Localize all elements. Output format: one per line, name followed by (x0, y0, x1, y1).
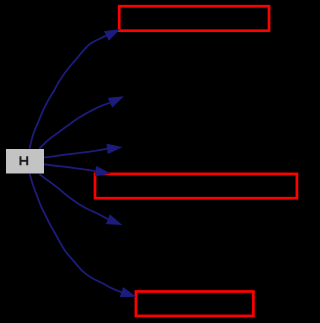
box top (red, truncated node) (119, 6, 269, 31)
edge 5 arrowhead (106, 214, 122, 225)
edge 5 wire (H to hidden node 5) (40, 174, 108, 219)
box bottom (red, truncated node) (136, 292, 254, 316)
edge 3 arrowhead (107, 144, 123, 155)
edge 2 arrowhead (108, 96, 124, 107)
edge 3 wire (H to hidden node 3) (44, 149, 107, 158)
edge 2 wire (H to hidden node 2) (39, 103, 110, 149)
edge 6 wire (H to bottom box) (30, 174, 122, 292)
node H (grey box) (6, 149, 44, 174)
edge 6 arrowhead (120, 287, 136, 297)
edge 4 arrowhead (95, 166, 111, 177)
edge 4 wire (H to middle box) (44, 164, 96, 171)
edge 1 arrowhead (104, 29, 120, 41)
box middle (red, truncated node) (95, 174, 297, 198)
edge 1 wire (H to top box) (30, 36, 107, 149)
node H label (20, 156, 29, 165)
